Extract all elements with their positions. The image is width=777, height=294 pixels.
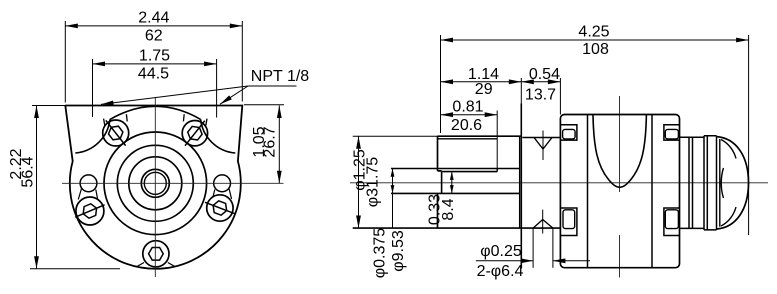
dim 6.4 left segment	[476, 260, 533, 262]
cap dome inner claws	[721, 140, 736, 227]
clip TR inner	[665, 129, 678, 139]
teardrop pocket	[593, 115, 646, 188]
wire: ext 2.44 right	[241, 21, 243, 102]
svg-text:φ0.25: φ0.25	[480, 243, 522, 260]
port V top: base line	[522, 137, 560, 139]
wire: neck top-right screw to arc	[183, 114, 207, 125]
dim 6.4 right segment	[553, 260, 590, 262]
wire: ext 2.22 bottom	[30, 268, 120, 270]
wire: ext 29 left flange face above	[520, 78, 522, 104]
svg-text:26.7: 26.7	[262, 126, 279, 157]
clip BR inner	[665, 210, 678, 229]
cap shoulder lines	[680, 137, 705, 228]
wire: ext 13.7 right	[559, 78, 561, 115]
clip TL inner	[563, 129, 576, 139]
body internal line right	[651, 115, 653, 268]
dim d31.75	[358, 136, 360, 228]
dim 2.44/62	[65, 25, 242, 27]
shaft 9.53 with flat	[391, 172, 520, 194]
dim 0.54/13.7	[521, 81, 560, 83]
shaft top silhouette	[391, 169, 520, 172]
wire: ext 4.25 right	[748, 35, 750, 235]
clip BR outer	[664, 208, 680, 236]
leader NPT arrow 2	[220, 86, 248, 104]
dim 1.75/44.5	[93, 63, 217, 65]
left view dim texts	[8, 10, 309, 188]
screw RL	[205, 195, 235, 221]
svg-text:φ9.53: φ9.53	[390, 230, 407, 272]
side view dim texts	[352, 24, 610, 281]
svg-text:108: 108	[582, 41, 609, 58]
dim 1.14/29	[441, 81, 522, 83]
wire: ext 1.05 top	[244, 104, 284, 106]
wire: ext 1.75 right (port)	[216, 59, 218, 118]
svg-text:NPT 1/8: NPT 1/8	[251, 68, 310, 85]
wire: neck top-left screw to arc	[104, 114, 128, 125]
flange left face	[520, 104, 522, 269]
clip TL outer	[561, 125, 577, 140]
svg-text:2.44: 2.44	[138, 10, 169, 27]
svg-text:0.54: 0.54	[529, 66, 560, 83]
wire: ext 2.44 left	[64, 21, 66, 103]
svg-text:56.4: 56.4	[20, 156, 37, 187]
leader NPT: underline	[248, 85, 297, 87]
screw LL	[75, 197, 104, 225]
wire: ext 20.6 right	[496, 111, 498, 172]
svg-text:29: 29	[475, 81, 493, 98]
wire: shallow top arc of face	[110, 106, 201, 119]
wire: shoulder arc left	[75, 119, 110, 153]
svg-text:20.6: 20.6	[451, 117, 482, 134]
svg-text:4.25: 4.25	[578, 24, 609, 41]
svg-text:62: 62	[145, 27, 163, 44]
svg-text:φ31.75: φ31.75	[365, 157, 382, 208]
clip TR outer	[664, 125, 680, 140]
wire: outer tombstone profile	[65, 106, 242, 269]
clip BL outer	[561, 208, 577, 236]
svg-text:1.75: 1.75	[139, 47, 170, 64]
port V top centerline	[542, 131, 544, 161]
cap ring 1	[689, 137, 693, 228]
screw bottom	[137, 241, 175, 267]
svg-text:8.4: 8.4	[440, 198, 457, 220]
svg-text:13.7: 13.7	[525, 87, 556, 104]
hole left 6.4	[80, 175, 97, 192]
dim 2.22/56.4	[36, 106, 38, 269]
dim d9.53	[392, 169, 394, 194]
centerline horizontal side view	[350, 96, 768, 278]
centerline vertical left view	[154, 97, 156, 277]
clip BL inner	[563, 210, 575, 229]
dim 1.05/26.7	[278, 106, 280, 184]
port V top: cone	[534, 138, 552, 150]
dim 0.81/20.6	[441, 114, 498, 116]
wire: neck left hole to screw	[78, 189, 97, 200]
svg-text:2-φ6.4: 2-φ6.4	[477, 263, 524, 280]
cylinder top inner line	[438, 136, 520, 228]
cap dome lip	[719, 139, 721, 227]
wire: ext 1.75 left (port)	[92, 59, 94, 117]
port V bottom: cone	[533, 220, 553, 229]
body outline	[560, 115, 679, 268]
node center boss circles	[104, 132, 207, 235]
wire: ext 6.4 right	[552, 228, 554, 268]
leader NPT arrow 1	[101, 86, 248, 104]
screw TR	[182, 121, 207, 146]
svg-text:44.5: 44.5	[138, 65, 169, 82]
dim 4.25/108	[441, 39, 749, 41]
svg-text:0.81: 0.81	[452, 99, 483, 116]
wire: ext 31.75 top	[353, 135, 438, 137]
wire: ext 6.4 left	[532, 228, 534, 268]
wire: neck right hole to screw	[213, 189, 232, 200]
centerline horizontal left view	[62, 97, 284, 277]
svg-text:φ0.375: φ0.375	[372, 228, 389, 279]
port V bottom centerline	[542, 210, 544, 234]
wire: ext 4.25 left	[440, 35, 442, 133]
cap dome	[717, 137, 749, 229]
screw TL	[103, 120, 129, 146]
wire: ext 2.22 top	[32, 105, 66, 107]
collar+V bottom line	[353, 227, 561, 229]
dim 8.4	[451, 172, 453, 194]
cap band	[704, 136, 717, 230]
body internal line left	[587, 115, 589, 268]
hole right 6.4	[214, 175, 231, 192]
centerline vertical body	[619, 96, 621, 278]
cylinder 31.75 outer	[438, 136, 522, 228]
wire: shoulder arc right	[201, 119, 236, 153]
